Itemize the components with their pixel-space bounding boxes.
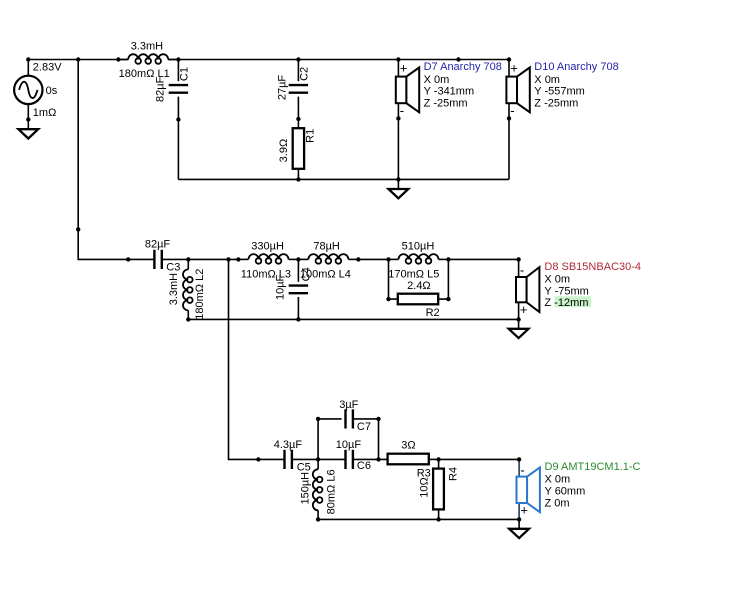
node D8 bottom pin (516, 317, 520, 321)
capacitor C6 (344, 450, 346, 469)
svg-text:330µH: 330µH (251, 241, 284, 253)
svg-text:510µH: 510µH (402, 241, 435, 253)
capacitor C4 (shunt) (289, 259, 308, 319)
svg-text:82µF: 82µF (145, 239, 171, 251)
node mid / branch to bottom (226, 257, 230, 261)
inductor L2 (shunt) (183, 259, 193, 319)
node C7 right corner (376, 417, 380, 421)
svg-text:Y 60mm: Y 60mm (545, 486, 586, 498)
resistor R4 (shunt) (433, 459, 444, 519)
svg-text:150µH: 150µH (300, 472, 312, 505)
node C5 right / L6 top / C6 left / C7 branch (316, 457, 320, 461)
svg-text:D9 AMT19CM1.1-C: D9 AMT19CM1.1-C (545, 461, 641, 473)
svg-text:Z -25mm: Z -25mm (424, 97, 468, 109)
ground G4 below bottom rail (509, 529, 529, 538)
node C4 bottom pin (296, 317, 300, 321)
svg-text:180mΩ L2: 180mΩ L2 (194, 269, 206, 320)
node D7 top pin (396, 57, 400, 61)
speaker D10 (506, 60, 529, 118)
capacitor C7 (344, 409, 346, 428)
wire branch mid to bottom section (229, 259, 259, 459)
node C2 top pin (296, 57, 300, 61)
svg-text:10Ω: 10Ω (419, 477, 431, 497)
svg-text:2.83V: 2.83V (33, 62, 62, 74)
svg-text:170mΩ L5: 170mΩ L5 (388, 268, 439, 280)
svg-text:-: - (510, 103, 514, 118)
node R3 right / R4 top (436, 457, 440, 461)
svg-text:C5: C5 (297, 462, 311, 474)
wire branch from top rail down to mid (78, 60, 128, 260)
svg-text:X 0m: X 0m (424, 74, 450, 86)
node branch joint (76, 227, 80, 231)
inductor L5 (389, 254, 449, 264)
speaker D9 wiring (518, 459, 520, 476)
node R4 bottom pin (436, 517, 440, 521)
ground G2 below top rail (389, 189, 409, 198)
wire R4 node to D9 (439, 458, 519, 460)
inductor L1 (118, 54, 178, 64)
svg-text:1mΩ: 1mΩ (33, 107, 57, 119)
svg-text:-: - (520, 462, 524, 477)
node L6 bottom pin (316, 517, 320, 521)
node L5 left node (386, 257, 390, 261)
resistor R2 (parallel with L5) (389, 259, 449, 304)
wire C3 left stub (128, 258, 154, 260)
svg-text:D10 Anarchy 708: D10 Anarchy 708 (534, 61, 618, 73)
svg-text:X 0m: X 0m (544, 274, 570, 286)
wire G3 stub (518, 319, 520, 328)
node D7 bottom pin (396, 116, 400, 120)
svg-text:27µF: 27µF (277, 75, 289, 101)
svg-text:82µF: 82µF (155, 76, 167, 102)
wire C5 stubs (258, 458, 284, 460)
svg-text:100mΩ L4: 100mΩ L4 (300, 268, 351, 280)
svg-text:0s: 0s (46, 85, 58, 97)
wire C7 branch up/left (318, 419, 342, 460)
svg-text:R2: R2 (426, 307, 440, 319)
inductor L3 (238, 254, 298, 264)
svg-text:-: - (520, 263, 524, 278)
svg-text:Z -12mm: Z -12mm (544, 297, 588, 309)
node L3 right / C4 top / L4 left (296, 257, 300, 261)
node source bottom (26, 117, 30, 121)
node top rail joint (456, 57, 460, 61)
source V1 (14, 60, 42, 130)
svg-text:C6: C6 (357, 460, 371, 472)
wire C7 right (353, 419, 379, 460)
wire top rail right (168, 59, 509, 61)
svg-text:C7: C7 (357, 421, 371, 433)
wire L5 node to D8 (448, 258, 518, 260)
wire top section bottom rail (178, 178, 509, 180)
svg-text:X 0m: X 0m (534, 74, 560, 86)
inductor L6 (shunt) (313, 459, 323, 519)
node D10 top pin (507, 57, 511, 61)
wire G4 stub (518, 519, 520, 528)
svg-text:Y -75mm: Y -75mm (544, 285, 588, 297)
svg-text:+: + (400, 60, 408, 75)
resistor R3 (388, 454, 429, 465)
capacitor C2 (289, 60, 308, 129)
ground G1 below source (18, 129, 38, 138)
speaker D10 wiring (508, 60, 510, 77)
svg-text:R4: R4 (447, 467, 459, 481)
svg-text:2.4Ω: 2.4Ω (407, 280, 431, 292)
wire mid bottom rail (188, 318, 518, 320)
wire bottom rail (318, 518, 519, 520)
node C3 left pin (126, 257, 130, 261)
wire L4 to L5 (358, 258, 388, 260)
resistor R1 (293, 128, 304, 179)
svg-text:D8 SB15NBAC30-4: D8 SB15NBAC30-4 (544, 261, 641, 273)
node R2 right pin (446, 297, 450, 301)
node C7 left corner (316, 417, 320, 421)
svg-text:-: - (400, 103, 404, 118)
svg-text:D7 Anarchy 708: D7 Anarchy 708 (424, 61, 502, 73)
svg-text:Y -557mm: Y -557mm (534, 86, 585, 98)
svg-text:3µF: 3µF (339, 399, 358, 411)
svg-text:+: + (510, 60, 518, 75)
node L2 top pin (186, 257, 190, 261)
node D8 top pin (516, 257, 520, 261)
svg-text:Z -25mm: Z -25mm (534, 97, 578, 109)
svg-text:3.3mH: 3.3mH (131, 40, 163, 52)
svg-text:Z 0m: Z 0m (545, 497, 570, 509)
svg-text:3Ω: 3Ω (401, 440, 415, 452)
svg-text:78µH: 78µH (313, 241, 340, 253)
speaker D8 (516, 263, 539, 317)
node L1 right / C1 top (176, 57, 180, 61)
capacitor C3 (153, 250, 155, 269)
inductor L4 (298, 254, 358, 264)
ground G3 below mid rail (509, 329, 529, 338)
node D9 bottom pin (517, 517, 521, 521)
node R1 bottom on rail (296, 177, 300, 181)
speaker D7 wiring (397, 60, 399, 77)
wire C3 to L2 node (162, 258, 239, 260)
node L5 right node (446, 257, 450, 261)
svg-text:R1: R1 (304, 129, 316, 143)
node L2 bottom pin (186, 317, 190, 321)
svg-text:Y -341mm: Y -341mm (424, 86, 475, 98)
highlight Z -12mm (555, 296, 591, 307)
wire R3 to R4 node (429, 458, 439, 460)
node C1 bottom pin (176, 117, 180, 121)
wire C6 stubs (318, 458, 345, 460)
node C5 left pin (256, 457, 260, 461)
svg-text:4.3µF: 4.3µF (274, 439, 303, 451)
svg-text:3.9Ω: 3.9Ω (278, 139, 290, 163)
node C2 bottom / R1 top (296, 117, 300, 121)
svg-text:80mΩ L6: 80mΩ L6 (325, 469, 337, 514)
svg-text:C1: C1 (179, 67, 191, 81)
wire top rail left (28, 59, 128, 61)
capacitor C5 (283, 450, 285, 469)
svg-text:C3: C3 (166, 262, 180, 274)
node R2 left pin (386, 297, 390, 301)
svg-text:10µF: 10µF (274, 274, 286, 300)
svg-text:10µF: 10µF (336, 439, 362, 451)
svg-text:X 0m: X 0m (545, 474, 571, 486)
wire G2 stub (397, 179, 399, 188)
node rail / ground joint (396, 177, 400, 181)
node top rail / branch to mid (76, 57, 80, 61)
node D9 top pin (517, 457, 521, 461)
speaker D8 wiring (518, 259, 520, 277)
svg-text:C2: C2 (299, 67, 311, 81)
svg-text:3.3mH: 3.3mH (168, 273, 180, 305)
svg-text:+: + (520, 302, 528, 317)
speaker D7 (396, 60, 419, 118)
node L1 left pin (116, 57, 120, 61)
node C6 right / C7 node (376, 457, 380, 461)
speaker D9 (517, 462, 540, 517)
svg-text:+: + (520, 503, 528, 518)
node source top / top rail left (26, 57, 30, 61)
node L3 left pin (236, 257, 240, 261)
capacitor C1 (169, 60, 188, 180)
node D10 bottom pin (507, 116, 511, 120)
node L4 right pin (356, 257, 360, 261)
